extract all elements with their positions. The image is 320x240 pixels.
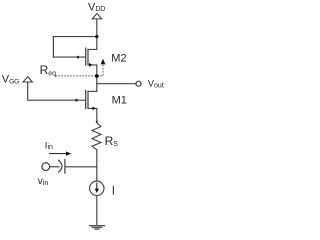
- transistor M2: [86, 48, 88, 66]
- svg-text:VDD: VDD: [88, 1, 105, 13]
- wire M2 drain: [88, 37, 97, 50]
- Iin current arrow: [49, 153, 66, 155]
- ground: [89, 226, 105, 229]
- svg-text:Req: Req: [40, 63, 57, 77]
- wire VDD stem: [96, 19, 98, 37]
- RS top pin dot: [96, 121, 98, 123]
- wire M1 source: [88, 108, 97, 122]
- svg-text:vin: vin: [38, 176, 49, 187]
- supply symbol VDD triangle: [92, 14, 102, 19]
- wire feedback left: [52, 37, 54, 58]
- M2 gate pin dot: [77, 56, 80, 59]
- wire vout: [97, 83, 136, 85]
- svg-text:M1: M1: [112, 95, 127, 107]
- svg-text:Vout: Vout: [148, 79, 164, 90]
- wire RS bottom to current source: [96, 150, 98, 181]
- wire feedback top: [53, 36, 96, 38]
- svg-text:M2: M2: [111, 53, 126, 65]
- svg-text:I: I: [112, 186, 115, 198]
- wire VGG to M1 gate: [28, 82, 85, 100]
- vin terminal circle: [42, 163, 50, 171]
- wire M1 drain lead: [88, 90, 97, 92]
- vout terminal circle: [136, 81, 141, 86]
- capacitor straight plate: [64, 159, 66, 174]
- wire bottom rail cap to node: [65, 166, 97, 168]
- transistor M1: [86, 90, 88, 109]
- supply symbol VGG triangle: [23, 77, 32, 82]
- svg-text:RS: RS: [105, 134, 119, 148]
- wire M2 gate lead: [53, 56, 85, 58]
- wire M2 source: [88, 65, 97, 92]
- capacitor curved plate: [58, 160, 62, 173]
- svg-text:VGG: VGG: [2, 73, 19, 85]
- junction node at VDD/feedback: [95, 35, 98, 38]
- M2 source arrow: [89, 63, 93, 67]
- Req dashed pointer line: [55, 65, 103, 76]
- resistor RS: [92, 123, 101, 150]
- Req arrowhead: [101, 59, 106, 65]
- M1 gate pin dot: [75, 99, 78, 102]
- current source I: [90, 181, 104, 195]
- node dot between M2 and M1: [95, 74, 99, 78]
- wire current source to ground: [96, 196, 98, 226]
- M1 source arrow: [92, 107, 96, 111]
- wire vin circle to cap: [50, 166, 59, 168]
- svg-text:Iin: Iin: [45, 141, 53, 152]
